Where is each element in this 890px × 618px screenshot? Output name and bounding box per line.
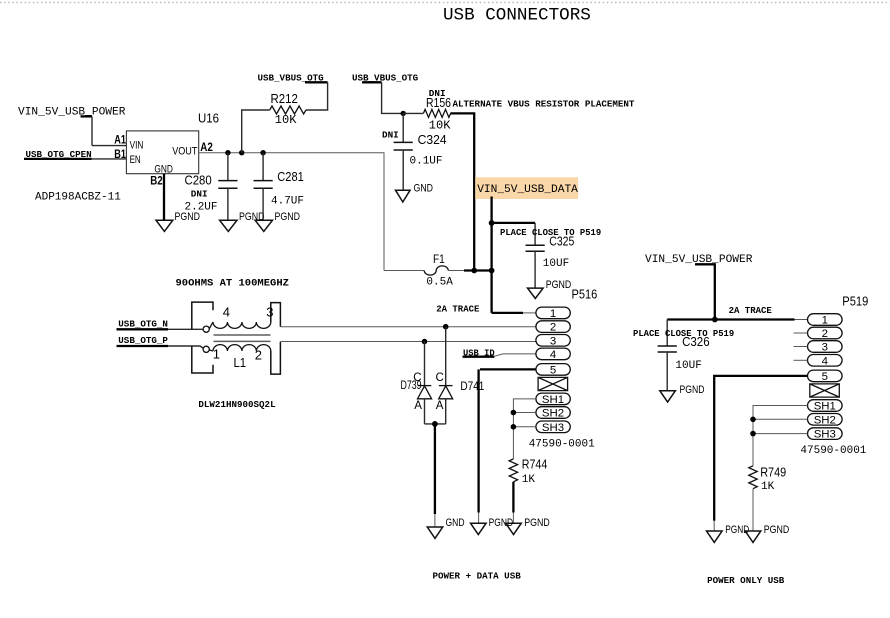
pin 4	[536, 348, 570, 360]
svg-text:1: 1	[213, 347, 220, 362]
svg-text:5: 5	[550, 365, 556, 377]
node junction R156/C324	[401, 111, 406, 116]
node junction C325 tap	[489, 220, 495, 226]
page border dotted top	[0, 2, 890, 4]
ground PGND under C326	[660, 384, 705, 402]
pin SH1	[536, 393, 570, 405]
pin 1	[808, 314, 843, 326]
svg-text:DLW21HN900SQ2L: DLW21HN900SQ2L	[198, 399, 276, 410]
svg-text:C: C	[436, 372, 444, 384]
crossed box	[538, 377, 568, 390]
pin 1	[536, 307, 570, 319]
svg-text:C325: C325	[549, 235, 574, 249]
pin SH3	[808, 428, 843, 440]
svg-text:3: 3	[550, 335, 556, 347]
svg-text:A: A	[414, 400, 422, 412]
svg-text:A: A	[436, 400, 444, 412]
capacitor C324 0.1UF DNI	[382, 113, 447, 190]
pin 3	[536, 335, 570, 347]
wire P519 pin 5 to PGND	[714, 376, 807, 531]
node junction D741/pin2 line	[443, 324, 449, 330]
resistor R749 1K	[749, 465, 786, 493]
ground PGND under R744	[506, 517, 550, 535]
wire USB_VBUS_OTG down to R156 node	[362, 82, 403, 113]
ground GND under C324	[396, 182, 434, 202]
svg-text:4: 4	[822, 355, 828, 367]
svg-text:DNI: DNI	[191, 188, 208, 199]
resistor R212 10K	[270, 92, 306, 127]
wire U16 B2 to PGND	[163, 174, 165, 221]
svg-text:SH2: SH2	[542, 408, 564, 420]
svg-text:B1: B1	[114, 148, 126, 161]
pin SH3	[536, 421, 570, 433]
pin SH1	[808, 400, 843, 412]
ground GND under diodes	[427, 517, 464, 539]
node junction F1/VIN_5V_USB_DATA	[489, 268, 495, 274]
svg-text:4.7UF: 4.7UF	[271, 195, 304, 207]
svg-text:R749: R749	[760, 465, 786, 479]
capacitor C325 10UF	[500, 223, 601, 288]
wire R744 to PGND	[512, 482, 514, 523]
svg-text:D739: D739	[401, 380, 422, 392]
svg-text:5: 5	[822, 371, 828, 383]
svg-text:4: 4	[550, 349, 556, 361]
ground PGND under C281	[255, 211, 300, 232]
svg-text:2: 2	[255, 348, 262, 363]
svg-text:3: 3	[822, 342, 828, 354]
svg-text:VIN: VIN	[130, 139, 144, 151]
svg-text:90OHMS AT 100MEGHZ: 90OHMS AT 100MEGHZ	[176, 278, 289, 290]
svg-text:C280: C280	[185, 173, 212, 187]
svg-text:USB CONNECTORS: USB CONNECTORS	[443, 6, 591, 26]
wire VOUT rail	[199, 153, 384, 271]
fuse F1 0.5A	[384, 252, 464, 289]
svg-text:10K: 10K	[429, 118, 451, 132]
svg-text:C324: C324	[418, 133, 447, 147]
node junction VOUT/R212	[239, 150, 244, 155]
svg-text:POWER + DATA USB: POWER + DATA USB	[433, 570, 522, 581]
wire L1 pin 3 to P516 pin 2	[280, 326, 536, 328]
svg-text:2A TRACE: 2A TRACE	[729, 306, 773, 316]
wire USB_OTG_CPEN to U16 pin B1	[24, 158, 126, 160]
node USB_OTG_CPEN	[26, 149, 92, 160]
resistor R156 10K DNI	[423, 88, 451, 132]
node junction SH2	[511, 410, 517, 416]
ground PGND under C280	[220, 211, 265, 232]
wire diodes to GND	[434, 424, 436, 527]
svg-text:10K: 10K	[275, 113, 297, 127]
pin A1 VIN	[114, 134, 143, 152]
pin 4	[808, 355, 843, 367]
pin 5	[536, 364, 570, 376]
node junction diode anodes	[432, 421, 438, 427]
wire USB_OTG_N to L1 pin 4	[117, 328, 204, 330]
svg-text:PGND: PGND	[239, 211, 265, 223]
svg-text:PGND: PGND	[546, 279, 572, 291]
svg-text:4: 4	[223, 305, 230, 320]
pin SH2	[536, 407, 570, 419]
svg-text:B2: B2	[150, 175, 163, 188]
svg-text:2A TRACE: 2A TRACE	[436, 304, 480, 314]
svg-text:47590-0001: 47590-0001	[800, 445, 866, 457]
svg-text:PGND: PGND	[725, 524, 749, 536]
wire diode anodes join	[425, 423, 446, 425]
ground PGND under P519 pin5	[707, 524, 750, 543]
wire USB_VBUS_OTG down to R212	[305, 82, 328, 110]
ground PGND under P516 pin5	[471, 517, 514, 535]
svg-text:47590-0001: 47590-0001	[529, 438, 595, 450]
svg-text:SH3: SH3	[542, 422, 564, 434]
svg-text:3: 3	[266, 305, 273, 320]
svg-text:L1: L1	[234, 356, 247, 370]
svg-text:GND: GND	[414, 182, 434, 194]
node VIN_5V_USB_DATA highlighted	[475, 177, 578, 199]
capacitor C280 2.2UF DNI	[185, 153, 238, 221]
node junction P519 SH2	[750, 417, 756, 423]
svg-text:D741: D741	[460, 381, 484, 393]
capacitor C326 10UF	[633, 320, 734, 391]
svg-text:P519: P519	[842, 294, 868, 308]
svg-text:2: 2	[550, 322, 556, 334]
svg-text:SH1: SH1	[814, 401, 836, 413]
ground PGND under R749	[745, 524, 789, 543]
wire L1 pin 2 to P516 pin 3	[280, 341, 536, 343]
wire USB_ID to P516 pin 4	[494, 354, 536, 356]
svg-text:U16: U16	[198, 112, 219, 126]
svg-text:PGND: PGND	[680, 384, 705, 396]
wire R749 to PGND	[752, 489, 754, 531]
svg-text:0.5A: 0.5A	[426, 276, 453, 288]
connector P519 47590-0001	[800, 294, 868, 457]
svg-text:PGND: PGND	[764, 524, 790, 536]
svg-text:DNI: DNI	[382, 129, 399, 140]
svg-text:ALTERNATE VBUS RESISTOR PLACEM: ALTERNATE VBUS RESISTOR PLACEMENT	[453, 98, 635, 109]
svg-text:1: 1	[550, 308, 556, 320]
connector P516 47590-0001	[529, 287, 598, 450]
svg-text:F1: F1	[433, 252, 445, 266]
svg-text:USB_OTG_N: USB_OTG_N	[118, 318, 168, 329]
svg-text:SH3: SH3	[814, 429, 836, 441]
resistor R744 1K	[509, 457, 547, 486]
node junction P519 SH3	[750, 431, 756, 437]
svg-text:VIN_5V_USB_DATA: VIN_5V_USB_DATA	[477, 184, 578, 196]
svg-text:1: 1	[822, 315, 828, 327]
wire SH1/SH2/SH3 bus to R744	[513, 399, 536, 459]
svg-text:SH2: SH2	[814, 414, 836, 426]
svg-text:2: 2	[822, 328, 828, 340]
node USB_ID	[463, 348, 495, 358]
diode D741	[436, 327, 485, 424]
svg-text:R744: R744	[522, 457, 548, 471]
svg-text:EN: EN	[130, 154, 141, 166]
svg-text:1K: 1K	[522, 474, 536, 486]
svg-text:GND: GND	[446, 517, 465, 529]
svg-text:R156: R156	[426, 96, 451, 110]
wire USB_OTG_P to L1 pin 1	[117, 346, 204, 348]
svg-text:VOUT: VOUT	[172, 146, 198, 158]
pin 2	[808, 327, 843, 339]
inductor L1 common-mode choke DLW21HN900SQ2L	[192, 302, 281, 410]
svg-text:0.1UF: 0.1UF	[410, 156, 443, 168]
svg-text:USB_OTG_P: USB_OTG_P	[118, 335, 168, 346]
pin SH2	[808, 414, 843, 426]
svg-text:2.2UF: 2.2UF	[185, 202, 218, 214]
wire to C325	[492, 222, 535, 224]
svg-text:1K: 1K	[761, 481, 775, 493]
pin 3	[808, 341, 843, 353]
svg-text:A2: A2	[200, 141, 213, 154]
node VIN_5V_USB_POWER (left)	[18, 107, 126, 119]
wire VIN_5V_USB_POWER to U16 pin A1	[81, 116, 127, 145]
node junction rail/C326	[712, 317, 718, 323]
pin A2 VOUT	[172, 141, 213, 158]
svg-text:C326: C326	[682, 335, 710, 349]
wire R156 right lead down to F1 output	[450, 113, 474, 270]
svg-text:SH1: SH1	[542, 394, 564, 406]
node junction SH3	[511, 424, 517, 430]
svg-text:PGND: PGND	[275, 211, 301, 223]
wire P519 pin 3 stub	[794, 346, 808, 348]
wire R212 left lead to VOUT rail	[242, 110, 270, 153]
svg-text:10UF: 10UF	[543, 258, 569, 270]
wire VIN_5V_USB_POWER down to P519 pin 1	[667, 264, 807, 319]
pin 5	[808, 370, 843, 382]
svg-text:PGND: PGND	[524, 517, 550, 529]
svg-text:A1: A1	[114, 134, 126, 147]
wire VIN_5V_USB_DATA down to P516 pin 1	[492, 197, 536, 313]
node junction D739/pin3 line	[422, 339, 428, 345]
pin 2	[536, 321, 570, 333]
wire P519 pin 4 stub	[794, 359, 808, 361]
node junction VOUT/C280	[225, 150, 230, 155]
wire F1 output thick segment	[464, 269, 493, 271]
wire P516 pin 5 to PGND	[479, 369, 536, 523]
node junction VOUT/C281	[260, 150, 265, 155]
op-amp U16 load switch ADP198ACBZ-11 body	[35, 112, 219, 204]
pin B2 GND	[150, 164, 173, 188]
wire junction to R156	[403, 112, 423, 114]
svg-text:10UF: 10UF	[675, 360, 701, 372]
node junction F1/R156	[471, 268, 477, 274]
wire P519 SH1/SH2/SH3 bus to R749	[753, 406, 808, 466]
svg-text:ADP198ACBZ-11: ADP198ACBZ-11	[35, 192, 121, 204]
svg-text:P516: P516	[572, 287, 598, 301]
crossed box	[810, 384, 840, 397]
pin B1 EN	[114, 148, 140, 166]
ground PGND under U16	[156, 211, 200, 232]
svg-text:C281: C281	[277, 170, 304, 184]
wire P519 pin 2 stub	[794, 332, 808, 334]
svg-text:USB_VBUS_OTG: USB_VBUS_OTG	[352, 72, 419, 83]
diode D739	[401, 342, 432, 424]
capacitor C281 4.7UF	[254, 153, 305, 221]
svg-text:POWER ONLY USB: POWER ONLY USB	[707, 575, 785, 586]
svg-text:VIN_5V_USB_POWER: VIN_5V_USB_POWER	[18, 107, 126, 119]
ground PGND under C325	[528, 279, 572, 298]
svg-text:R212: R212	[271, 92, 298, 106]
